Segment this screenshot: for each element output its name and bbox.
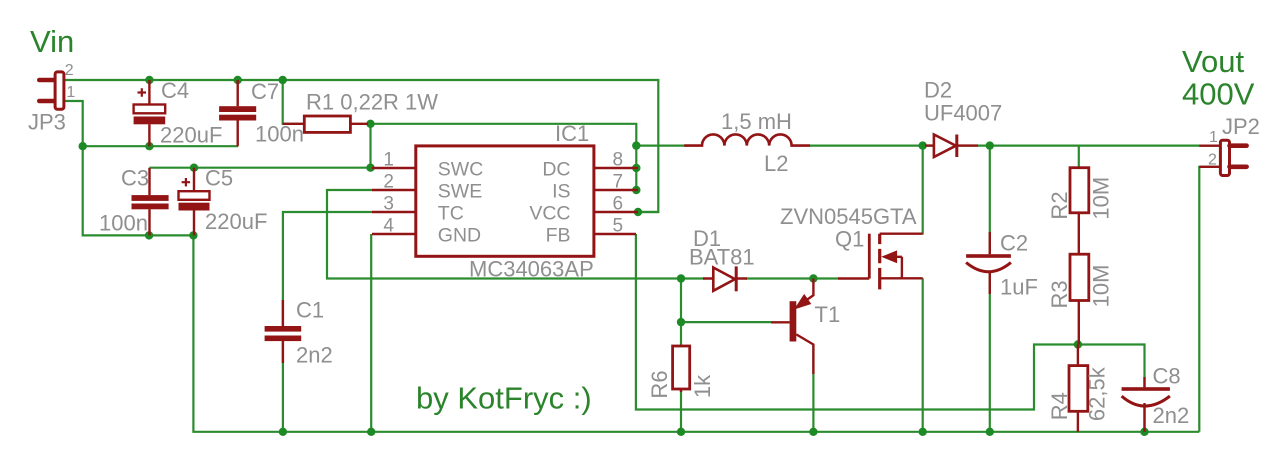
svg-text:IS: IS <box>552 181 570 203</box>
capacitor C7 <box>219 80 256 146</box>
capacitor C8 <box>1122 377 1170 432</box>
pin names left <box>438 159 484 247</box>
svg-text:220uF: 220uF <box>160 123 222 148</box>
svg-text:IC1: IC1 <box>555 121 589 146</box>
svg-text:UF4007: UF4007 <box>924 101 1002 126</box>
capacitor C5 (polarized) <box>179 168 210 236</box>
IC pin 6 stub <box>594 211 638 213</box>
IC pin 5 stub <box>594 233 636 235</box>
capacitor C1 <box>265 300 302 363</box>
wire C2 top drop <box>989 146 991 254</box>
svg-text:1,5 mH: 1,5 mH <box>721 109 792 134</box>
wire R6 bottom to ground rail <box>680 389 682 432</box>
svg-text:1uF: 1uF <box>1000 275 1038 300</box>
wire R6 branch down from gate-drive line <box>680 279 682 347</box>
IC U1 MC34063AP body <box>416 146 594 256</box>
svg-text:SWC: SWC <box>438 159 484 181</box>
svg-text:FB: FB <box>546 225 571 247</box>
svg-text:3: 3 <box>383 194 394 215</box>
wire SWE pin2 to gate-drive line <box>327 190 705 279</box>
wire JP3 pin1 to GND corner <box>64 101 83 146</box>
junction dots switch output <box>919 141 995 149</box>
svg-text:R4: R4 <box>1047 392 1072 420</box>
svg-text:6: 6 <box>613 194 624 215</box>
resistor R1 <box>283 116 368 132</box>
transistor Q1 ZVN0545GTA (n-mosfet) <box>838 234 923 290</box>
wire D2 cathode to JP2 pin1 <box>957 145 1220 147</box>
svg-text:2: 2 <box>1208 152 1217 169</box>
wire T1 base <box>681 321 771 323</box>
svg-text:2n2: 2n2 <box>1153 403 1190 428</box>
svg-text:C8: C8 <box>1153 364 1181 389</box>
svg-text:2: 2 <box>65 62 74 79</box>
svg-text:10M: 10M <box>1089 265 1114 308</box>
junction dots GND left <box>79 142 198 240</box>
svg-text:4: 4 <box>383 216 394 237</box>
IC pin 1 stub <box>372 167 416 169</box>
wire R1 right to DC/IS corner <box>371 124 637 190</box>
diode D2 UF4007 <box>925 135 978 158</box>
svg-text:DC: DC <box>542 159 570 181</box>
junction dots ground rail <box>279 428 1149 436</box>
wire Q1 source to rail <box>922 278 924 432</box>
svg-text:7: 7 <box>613 172 624 193</box>
svg-text:L2: L2 <box>764 151 788 176</box>
svg-text:MC34063AP: MC34063AP <box>469 257 594 282</box>
wire SWC net: C3/C5 top to pin1 <box>150 167 373 169</box>
wire C8 bottom to rail <box>1143 405 1145 432</box>
resistor R6 <box>673 345 690 393</box>
IC pin 7 stub <box>594 189 638 191</box>
svg-text:1: 1 <box>383 150 394 171</box>
svg-text:BAT81: BAT81 <box>689 245 755 270</box>
svg-text:5: 5 <box>613 216 624 237</box>
wire L2 to D2 anode <box>810 145 934 147</box>
IC pin 3 stub <box>372 211 416 213</box>
pin names right <box>529 159 570 247</box>
resistor R4 <box>1069 345 1088 432</box>
svg-text:R1 0,22R 1W: R1 0,22R 1W <box>306 90 438 115</box>
wire Vin rail from JP3 pin2 to VCC corner <box>64 80 658 212</box>
svg-text:1: 1 <box>1209 129 1218 146</box>
pin numbers right 8-5 <box>613 150 624 237</box>
junction dots SWC net <box>190 120 641 195</box>
wire C2 bottom to rail <box>989 272 991 432</box>
capacitor C4 (polarized) <box>134 80 166 146</box>
svg-text:1k: 1k <box>690 374 715 398</box>
wire R1 right to pin1 vertical <box>369 124 371 168</box>
transistor T1 (pnp) <box>771 279 813 375</box>
wire D1 cathode to T1 emitter and Q1 gate <box>745 277 838 279</box>
svg-text:Vout: Vout <box>1182 44 1244 79</box>
svg-text:62,5k: 62,5k <box>1084 366 1109 421</box>
wire VCC pin6 riser <box>640 211 658 213</box>
pin numbers left 1-4 <box>383 150 394 237</box>
wire switch node to L2 <box>636 145 687 147</box>
svg-text:R2: R2 <box>1047 191 1072 219</box>
svg-text:C4: C4 <box>161 78 189 103</box>
svg-text:R3: R3 <box>1047 280 1072 308</box>
capacitor C3 <box>132 168 169 236</box>
wire TC pin3 to C1 <box>283 212 372 327</box>
svg-text:100n: 100n <box>255 122 304 147</box>
svg-text:Q1: Q1 <box>835 227 864 252</box>
diode D1 BAT81 <box>703 266 747 291</box>
wire T1 collector to rail <box>812 345 814 432</box>
IC pin 2 stub <box>372 189 416 191</box>
junction dots Vin rail <box>145 76 287 84</box>
svg-text:8: 8 <box>613 150 624 171</box>
svg-text:by KotFryc :): by KotFryc :) <box>416 381 592 416</box>
resistor R2 <box>1070 168 1089 254</box>
svg-text:220uF: 220uF <box>205 209 267 234</box>
wire Q1 drain drop <box>922 146 924 235</box>
wire JP2 pin2 drop <box>1199 167 1220 432</box>
wire R2 top stub <box>1078 146 1080 168</box>
svg-text:100n: 100n <box>99 211 148 236</box>
svg-text:2n2: 2n2 <box>296 343 333 368</box>
svg-text:VCC: VCC <box>529 203 570 225</box>
svg-text:GND: GND <box>438 225 481 247</box>
wire GND down to C3/C5 bottom rail <box>83 146 194 235</box>
wire GND pin4 drop to rail <box>370 234 372 432</box>
svg-text:1: 1 <box>66 84 75 101</box>
svg-text:C5: C5 <box>205 166 233 191</box>
svg-text:Vin: Vin <box>30 24 74 59</box>
svg-text:C2: C2 <box>1000 231 1028 256</box>
resistor R3 <box>1070 254 1089 344</box>
junction dot VCC pin6 <box>634 208 642 216</box>
svg-text:C3: C3 <box>121 166 149 191</box>
svg-text:2: 2 <box>383 172 394 193</box>
wire Vin branch down to R1 left <box>283 80 305 124</box>
svg-text:JP3: JP3 <box>28 110 66 135</box>
svg-text:T1: T1 <box>815 302 841 327</box>
inductor L2 <box>684 134 810 145</box>
wire GND branch to C4/C7 <box>83 145 238 147</box>
IC pin 8 stub <box>594 167 638 169</box>
capacitor C2 <box>966 232 1011 294</box>
svg-text:10M: 10M <box>1089 177 1114 220</box>
svg-text:SWE: SWE <box>438 181 482 203</box>
wire bottom ground rail <box>193 235 1199 431</box>
connector JP2 <box>1199 140 1246 175</box>
IC pin 4 stub <box>372 233 416 235</box>
junction dot divider tap <box>1074 340 1082 348</box>
junction dots gate drive <box>677 274 818 326</box>
svg-text:C1: C1 <box>296 298 324 323</box>
connector JP3 <box>39 72 64 109</box>
wire FB pin5 to divider tap <box>636 234 1145 410</box>
svg-text:400V: 400V <box>1182 77 1255 112</box>
svg-text:TC: TC <box>438 203 464 225</box>
svg-text:JP2: JP2 <box>1222 114 1260 139</box>
wire C1 bottom to ground rail <box>282 340 284 432</box>
svg-text:C7: C7 <box>251 79 279 104</box>
svg-text:ZVN0545GTA: ZVN0545GTA <box>780 204 917 229</box>
svg-text:D2: D2 <box>924 78 952 103</box>
svg-text:R6: R6 <box>647 370 672 398</box>
